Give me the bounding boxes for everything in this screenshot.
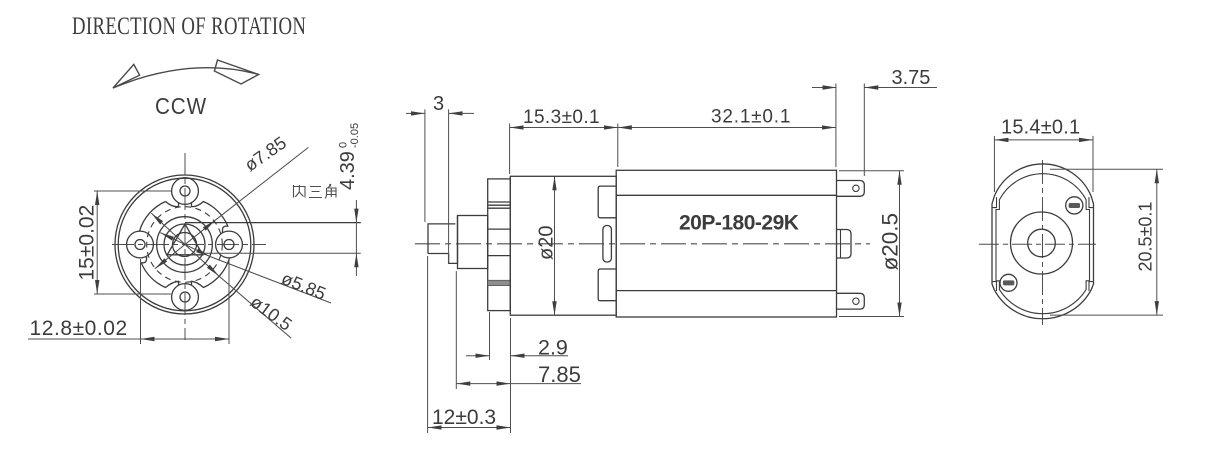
- svg-text:4.39: 4.39: [337, 151, 359, 190]
- dim 4.39 lower extension line: [203, 252, 361, 254]
- leader diameter line O7.85: [155, 147, 309, 268]
- dim 12.8+-0.02 left extension line: [28, 259, 229, 344]
- dim 15.4+-0.1: [994, 136, 1093, 192]
- front view centerline horizontal: [112, 244, 266, 246]
- front outer circle: [115, 175, 254, 314]
- svg-text:15±0.02: 15±0.02: [76, 205, 99, 281]
- circle R28: [157, 217, 213, 273]
- svg-text:ø10.5: ø10.5: [247, 292, 296, 335]
- rear notch bottom-left: [992, 282, 997, 292]
- rear notch top-right: [1089, 197, 1094, 208]
- label CCW: [155, 93, 207, 120]
- leader diameter line O5.85: [160, 233, 331, 303]
- hole left: [135, 240, 145, 250]
- dashed bolt circle: [147, 207, 223, 283]
- dim 3 (shaft length): [406, 109, 474, 264]
- dim o20.5 (motor dia): [839, 171, 904, 317]
- svg-text:20.5±0.1: 20.5±0.1: [1136, 202, 1156, 272]
- inner triangle: [167, 224, 203, 255]
- terminal tab top hole: [853, 185, 859, 191]
- rear terminal circle bottom-left: [1000, 274, 1017, 291]
- dim o20 (gearbox dia): [554, 176, 556, 315]
- svg-text:ø7.85: ø7.85: [241, 132, 290, 175]
- hole top: [180, 186, 190, 196]
- svg-text:DIRECTION OF ROTATION: DIRECTION OF ROTATION: [72, 11, 306, 39]
- shaft: [428, 224, 455, 254]
- svg-text:-0.05: -0.05: [349, 123, 361, 148]
- dim 12.8 right extension line: [228, 259, 230, 344]
- rear body inner outline: [996, 174, 1090, 314]
- dim 3.75 (terminal): [812, 84, 937, 177]
- hole top boss: [172, 178, 199, 205]
- hole right boss: [216, 231, 243, 258]
- svg-text:32.1±0.1: 32.1±0.1: [711, 107, 791, 128]
- rear terminal slot bottom-left: [1003, 280, 1014, 285]
- side view centerline: [415, 243, 870, 245]
- circle R12: [173, 233, 197, 257]
- motor can: [616, 170, 836, 317]
- front rim circle: [118, 178, 251, 311]
- rear terminal slot top-right: [1069, 203, 1080, 208]
- scallop ring top-left flare: [166, 202, 179, 207]
- svg-text:0: 0: [338, 142, 350, 148]
- rear center boss circle: [1011, 212, 1073, 274]
- scallop ring SW arc with left hook: [141, 256, 178, 288]
- dim 4.39 dimension line with outside arrows: [355, 200, 357, 223]
- label nei-san-jiao (inner triangle, CJK strokes): [294, 184, 337, 199]
- motor front bearing slot: [603, 226, 612, 263]
- terminal tab top: [837, 181, 865, 197]
- ring ridge lines: [488, 202, 511, 256]
- scallop ring SE arc: [192, 258, 230, 288]
- dim 20.5+-0.1: [1050, 169, 1163, 315]
- gearbox body: [510, 176, 616, 315]
- svg-text:12±0.3: 12±0.3: [432, 406, 496, 429]
- motor can flat lines: [616, 195, 836, 290]
- svg-text:3: 3: [433, 93, 444, 115]
- motor front top lug: [598, 186, 616, 218]
- dim 15 dimension line: [96, 191, 98, 294]
- front view centerline vertical: [112, 153, 266, 340]
- scallop ring NE arc with right hook: [192, 202, 228, 234]
- svg-text:CCW: CCW: [155, 93, 207, 120]
- svg-text:20P-180-29K: 20P-180-29K: [679, 212, 799, 235]
- rear notch top-left: [992, 197, 997, 208]
- svg-text:2.9: 2.9: [538, 336, 568, 360]
- label 4.39 -0.05/0 (rotated): [337, 123, 361, 190]
- svg-text:15.3±0.1: 15.3±0.1: [523, 107, 600, 128]
- svg-text:3.75: 3.75: [892, 67, 931, 89]
- shaft step: [449, 216, 458, 264]
- scallop ring NW arc: [140, 202, 166, 232]
- rear view centerline vertical: [979, 160, 1096, 325]
- dim 15.3+-0.1: [510, 124, 618, 175]
- dim 32.1+-0.1: [618, 84, 836, 168]
- leader diameter line O10.5: [151, 213, 291, 338]
- dim 15+-0.02 top extension line: [94, 191, 171, 294]
- svg-text:ø20.5: ø20.5: [878, 213, 903, 271]
- ring dark band: [488, 280, 511, 285]
- hole bottom boss: [172, 284, 199, 311]
- svg-text:ø5.85: ø5.85: [279, 268, 329, 304]
- title: DIRECTION OF ROTATION: [72, 11, 306, 39]
- dim 12+-0.3: [428, 256, 511, 433]
- gearbox front ring: [488, 179, 511, 311]
- dim 12.8 dimension line: [141, 338, 230, 340]
- dim 4.39 upper extension line (triangle apex): [185, 200, 361, 276]
- rear terminal circle top-right: [1066, 197, 1083, 214]
- rear shaft hole: [1028, 229, 1056, 257]
- terminal tab bottom hole: [853, 298, 859, 304]
- rotation arrow CCW (arc with open head and tail flag): [113, 60, 259, 88]
- motor front bottom lug: [598, 269, 616, 301]
- dim 15 bottom extension line: [94, 293, 171, 295]
- hole bottom: [180, 292, 190, 302]
- svg-text:ø20: ø20: [536, 226, 558, 260]
- collar: [458, 216, 488, 269]
- rear view centerline horizontal: [979, 243, 1096, 245]
- svg-text:7.85: 7.85: [538, 362, 581, 387]
- hole right: [224, 240, 234, 250]
- hole left boss: [127, 231, 154, 258]
- svg-text:15.4±0.1: 15.4±0.1: [1001, 117, 1080, 139]
- terminal tab bottom: [837, 293, 865, 309]
- svg-text:12.8±0.02: 12.8±0.02: [30, 317, 128, 340]
- rear body outer outline with corner notches: [992, 164, 1094, 319]
- dim 2.9 (ring width): [466, 312, 568, 389]
- motor rear bearing bump: [837, 230, 852, 259]
- dim 12.8 leader underline: [28, 338, 141, 340]
- circle R20.5 (triangle circumcircle): [164, 224, 205, 265]
- rear notch bottom-right: [1089, 282, 1094, 292]
- dim 7.85 (collar to ring): [456, 271, 581, 389]
